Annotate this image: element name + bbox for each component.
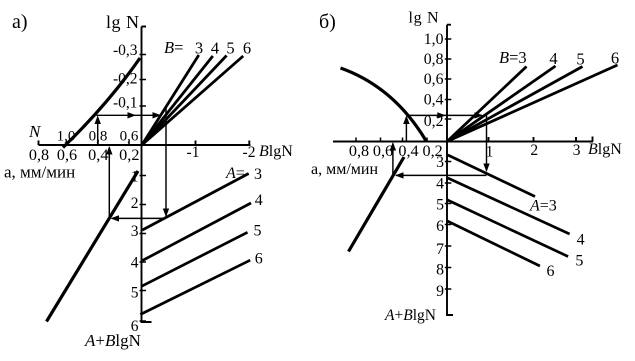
svg-text:4: 4 bbox=[131, 255, 139, 272]
svg-text:A+BlgN: A+BlgN bbox=[84, 331, 141, 350]
svg-text:lg N: lg N bbox=[106, 12, 140, 32]
svg-text:а, мм/мин: а, мм/мин bbox=[311, 161, 378, 178]
right path arrow up to curve bbox=[405, 117, 407, 142]
right horizontal axis bbox=[333, 137, 593, 142]
right lgN-axis upper ticks bbox=[445, 39, 452, 119]
left path arrow right to B3 bbox=[97, 114, 161, 116]
svg-text:A+BlgN: A+BlgN bbox=[384, 307, 436, 324]
svg-text:5: 5 bbox=[226, 39, 234, 58]
svg-text:0,2: 0,2 bbox=[422, 142, 442, 160]
svg-text:4: 4 bbox=[436, 176, 444, 193]
svg-text:6: 6 bbox=[255, 251, 263, 268]
right line B=4 bbox=[447, 66, 556, 142]
svg-text:B=3: B=3 bbox=[499, 48, 527, 67]
svg-text:6: 6 bbox=[243, 39, 251, 58]
right N curve bbox=[341, 68, 427, 142]
svg-text:5: 5 bbox=[576, 50, 584, 69]
right line B=3 bbox=[447, 67, 527, 142]
left transfer line bbox=[47, 171, 139, 322]
left line A=4 bbox=[143, 203, 252, 261]
right line A=3 bbox=[448, 155, 535, 197]
svg-text:A=: A= bbox=[225, 165, 245, 182]
svg-text:6: 6 bbox=[436, 218, 444, 235]
svg-text:б): б) bbox=[319, 11, 336, 33]
svg-text:5: 5 bbox=[575, 253, 583, 270]
left line B=4 bbox=[142, 56, 213, 145]
right line A=5 bbox=[448, 200, 569, 257]
svg-text:3: 3 bbox=[131, 223, 139, 240]
svg-text:4: 4 bbox=[255, 192, 263, 209]
svg-text:0,4: 0,4 bbox=[398, 142, 418, 160]
left N curve bbox=[63, 58, 140, 148]
right path line down to A3 bbox=[486, 115, 488, 171]
svg-text:а, мм/мин: а, мм/мин bbox=[4, 163, 75, 182]
svg-text:0,8: 0,8 bbox=[29, 146, 49, 164]
left line B=3 bbox=[142, 55, 199, 145]
svg-text:0,8: 0,8 bbox=[349, 142, 369, 160]
svg-text:3: 3 bbox=[573, 142, 581, 159]
svg-text:0,8: 0,8 bbox=[424, 51, 444, 68]
svg-text:-0,1: -0,1 bbox=[113, 95, 138, 112]
svg-text:5: 5 bbox=[254, 223, 262, 240]
svg-text:2: 2 bbox=[530, 142, 538, 159]
svg-text:0,6: 0,6 bbox=[424, 71, 444, 88]
left lgN-axis upper ticks bbox=[140, 55, 147, 107]
svg-text:N: N bbox=[28, 122, 42, 141]
right path arrow left to transfer line bbox=[396, 174, 487, 176]
right a-scale ticks bbox=[356, 138, 427, 142]
left line B=5 bbox=[142, 56, 227, 145]
right line A=6 bbox=[447, 221, 540, 266]
left a-scale ticks bbox=[67, 141, 130, 145]
svg-text:9: 9 bbox=[436, 283, 444, 300]
left line A=5 bbox=[141, 232, 248, 286]
svg-text:4: 4 bbox=[549, 49, 557, 68]
svg-text:0,6: 0,6 bbox=[120, 129, 139, 145]
right vertical axis bbox=[447, 25, 453, 315]
svg-text:-0,3: -0,3 bbox=[113, 42, 138, 59]
svg-text:8: 8 bbox=[436, 262, 444, 279]
svg-text:-1: -1 bbox=[187, 144, 200, 161]
right lgN-axis lower ticks bbox=[445, 162, 452, 290]
svg-text:0,6: 0,6 bbox=[373, 142, 393, 160]
svg-text:0,2: 0,2 bbox=[119, 146, 139, 164]
left path arrow left to transfer line bbox=[112, 217, 166, 219]
svg-text:5: 5 bbox=[436, 197, 444, 214]
right line A=4 bbox=[448, 178, 570, 234]
right path arrow right to B3 bbox=[406, 114, 482, 116]
svg-text:-2: -2 bbox=[243, 144, 256, 161]
left path arrow up to curve bbox=[97, 117, 99, 145]
svg-text:а): а) bbox=[12, 11, 28, 33]
right line B=6 bbox=[447, 65, 618, 142]
left path line down to A3 bbox=[165, 107, 167, 216]
svg-text:4: 4 bbox=[211, 39, 219, 58]
left line A=6 bbox=[140, 260, 250, 314]
left line A=3 bbox=[142, 174, 248, 231]
svg-text:3: 3 bbox=[254, 166, 262, 183]
svg-text:lg N: lg N bbox=[409, 10, 440, 27]
svg-text:B=: B= bbox=[164, 38, 183, 57]
svg-text:BlgN: BlgN bbox=[259, 143, 293, 160]
right path arrow up to a-scale bbox=[392, 144, 394, 175]
svg-text:1,0: 1,0 bbox=[424, 31, 444, 48]
right line B=5 bbox=[447, 67, 583, 142]
svg-text:0,4: 0,4 bbox=[424, 92, 444, 109]
svg-text:BlgN: BlgN bbox=[588, 141, 622, 158]
svg-text:2: 2 bbox=[131, 195, 139, 212]
right transfer line bbox=[349, 157, 405, 252]
left horizontal axis bbox=[39, 141, 251, 146]
svg-text:4: 4 bbox=[577, 232, 585, 249]
svg-text:0,6: 0,6 bbox=[57, 146, 77, 164]
left line B=6 bbox=[142, 56, 243, 145]
left vertical axis bbox=[142, 27, 152, 323]
left lgN-axis lower ticks bbox=[140, 176, 147, 322]
svg-text:0,4: 0,4 bbox=[88, 146, 108, 164]
svg-text:3: 3 bbox=[195, 39, 203, 58]
svg-text:5: 5 bbox=[131, 285, 139, 302]
left path arrow up to a-scale bbox=[108, 148, 110, 219]
svg-text:A=3: A=3 bbox=[529, 198, 557, 215]
svg-text:7: 7 bbox=[436, 241, 444, 258]
svg-text:6: 6 bbox=[547, 263, 555, 280]
